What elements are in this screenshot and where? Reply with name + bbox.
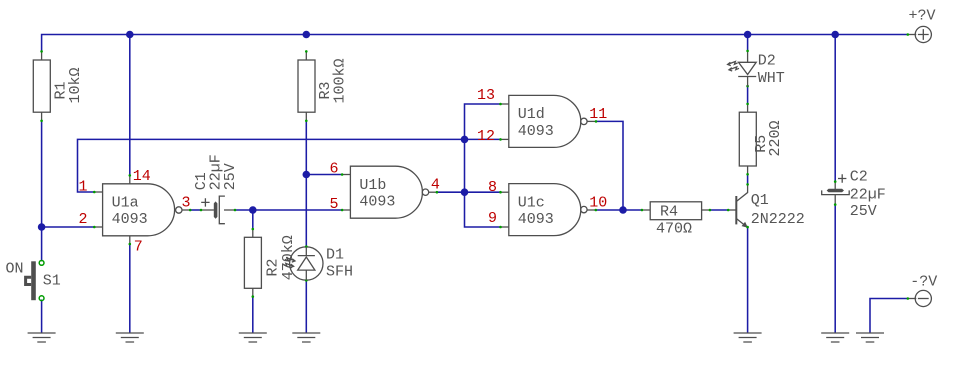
- wire top rail: [42, 35, 908, 52]
- svg-text:22µF: 22µF: [850, 186, 886, 203]
- svg-text:100kΩ: 100kΩ: [332, 58, 349, 103]
- wire C1 to node: [235, 209, 251, 211]
- wire pin12: [465, 138, 501, 140]
- node bus-feedback: [461, 136, 469, 144]
- node C1-R2-pin5: [249, 206, 257, 214]
- led D2: [728, 50, 785, 88]
- node rail-C2: [831, 31, 839, 39]
- node rail-pin14: [126, 31, 134, 39]
- svg-text:14: 14: [133, 168, 151, 185]
- node R1-S1-pin2: [38, 223, 46, 231]
- ground Q1: [734, 333, 762, 342]
- svg-text:7: 7: [134, 239, 143, 256]
- svg-text:470Ω: 470Ω: [656, 221, 692, 238]
- wire R2 bottom to ground: [252, 297, 254, 333]
- transistor Q1: [727, 183, 805, 228]
- resistor R1: [33, 50, 84, 122]
- wire R4 to Q1 base: [710, 209, 728, 211]
- wire D2 to R5: [747, 87, 749, 104]
- capacitor C2: [822, 168, 886, 220]
- svg-text:4093: 4093: [518, 123, 554, 140]
- nand gate U1c: [488, 179, 607, 236]
- node rail-D2: [744, 31, 752, 39]
- svg-text:-?V: -?V: [910, 274, 937, 291]
- wire R1 bottom to node: [41, 121, 43, 261]
- wire -?V to ground: [870, 299, 908, 333]
- svg-text:Q1: Q1: [751, 192, 769, 209]
- svg-text:U1b: U1b: [359, 177, 386, 194]
- wire pin4 to bus: [437, 191, 464, 193]
- resistor R4: [641, 202, 712, 238]
- node bus-pin8: [461, 188, 469, 196]
- svg-text:C2: C2: [850, 168, 868, 185]
- nand gate U1d: [477, 87, 607, 148]
- ground R2: [239, 333, 267, 342]
- resistor R5: [739, 103, 784, 176]
- wire pin8: [465, 191, 501, 193]
- svg-text:2N2222: 2N2222: [751, 211, 805, 228]
- ground U1a pin7: [116, 333, 144, 342]
- wire C2 bottom to ground: [834, 205, 836, 333]
- wire pin6: [306, 174, 341, 176]
- svg-text:U1c: U1c: [518, 194, 545, 211]
- wire bus vertical: [465, 104, 501, 227]
- wire node to pin5: [253, 209, 342, 211]
- node R3-pin6: [303, 171, 311, 179]
- ground C2: [821, 333, 849, 342]
- svg-text:D2: D2: [758, 53, 776, 70]
- svg-text:5: 5: [329, 196, 338, 213]
- wire pin10: [596, 209, 641, 211]
- svg-text:WHT: WHT: [758, 70, 785, 87]
- wire pin3 to C1: [191, 209, 201, 211]
- node out10: [619, 206, 627, 214]
- svg-text:10kΩ: 10kΩ: [67, 67, 84, 103]
- svg-text:S1: S1: [43, 272, 61, 289]
- wire S1 bottom to ground: [41, 300, 43, 333]
- wire node to R2: [252, 210, 254, 229]
- svg-text:13: 13: [477, 87, 495, 104]
- wire rail to D2: [747, 35, 749, 51]
- wire Q1 emitter to ground: [747, 228, 749, 333]
- svg-text:4093: 4093: [112, 211, 148, 228]
- wire D1 to ground: [305, 280, 307, 332]
- svg-text:25V: 25V: [850, 203, 877, 220]
- svg-text:12: 12: [477, 128, 495, 145]
- capacitor C1: [193, 154, 239, 223]
- ground S1: [28, 333, 56, 342]
- wire feedback pin1: [78, 139, 465, 192]
- node rail-R3: [303, 31, 311, 39]
- wire R3 to D1: [305, 121, 307, 247]
- svg-text:2: 2: [78, 211, 87, 228]
- photodiode D1: [284, 245, 353, 281]
- switch S1: [6, 261, 61, 301]
- wire pin7 to ground: [129, 244, 131, 332]
- resistor R2: [244, 228, 296, 298]
- supply terminal -?V: [907, 274, 938, 307]
- svg-text:ON: ON: [6, 261, 24, 278]
- svg-text:220Ω: 220Ω: [767, 120, 784, 156]
- svg-text:U1d: U1d: [518, 106, 545, 123]
- wire C2 top: [834, 35, 836, 182]
- svg-text:4: 4: [431, 177, 440, 194]
- svg-text:4093: 4093: [518, 211, 554, 228]
- nand gate U1a: [78, 168, 191, 255]
- ground -?V: [856, 333, 884, 342]
- wire pin11 to node10: [596, 121, 623, 210]
- svg-text:25V: 25V: [222, 163, 239, 190]
- svg-text:1: 1: [78, 178, 87, 195]
- svg-text:9: 9: [488, 210, 497, 227]
- svg-text:+?V: +?V: [909, 8, 936, 25]
- wire pin2: [42, 226, 94, 228]
- svg-text:8: 8: [488, 179, 497, 196]
- svg-text:SFH: SFH: [326, 264, 353, 281]
- resistor R3: [298, 50, 349, 122]
- svg-text:R4: R4: [660, 204, 678, 221]
- wire Q1 collector to R5: [747, 175, 749, 184]
- supply terminal +?V: [907, 8, 936, 43]
- svg-text:3: 3: [181, 195, 190, 212]
- nand gate U1b: [329, 161, 439, 219]
- svg-text:U1a: U1a: [112, 195, 139, 212]
- svg-text:11: 11: [589, 106, 607, 123]
- svg-text:6: 6: [329, 161, 338, 178]
- wire pin14 column: [129, 35, 131, 176]
- ground D1: [292, 333, 320, 342]
- svg-text:470kΩ: 470kΩ: [280, 235, 297, 280]
- svg-text:10: 10: [589, 195, 607, 212]
- svg-text:4093: 4093: [359, 194, 395, 211]
- svg-text:D1: D1: [326, 247, 344, 264]
